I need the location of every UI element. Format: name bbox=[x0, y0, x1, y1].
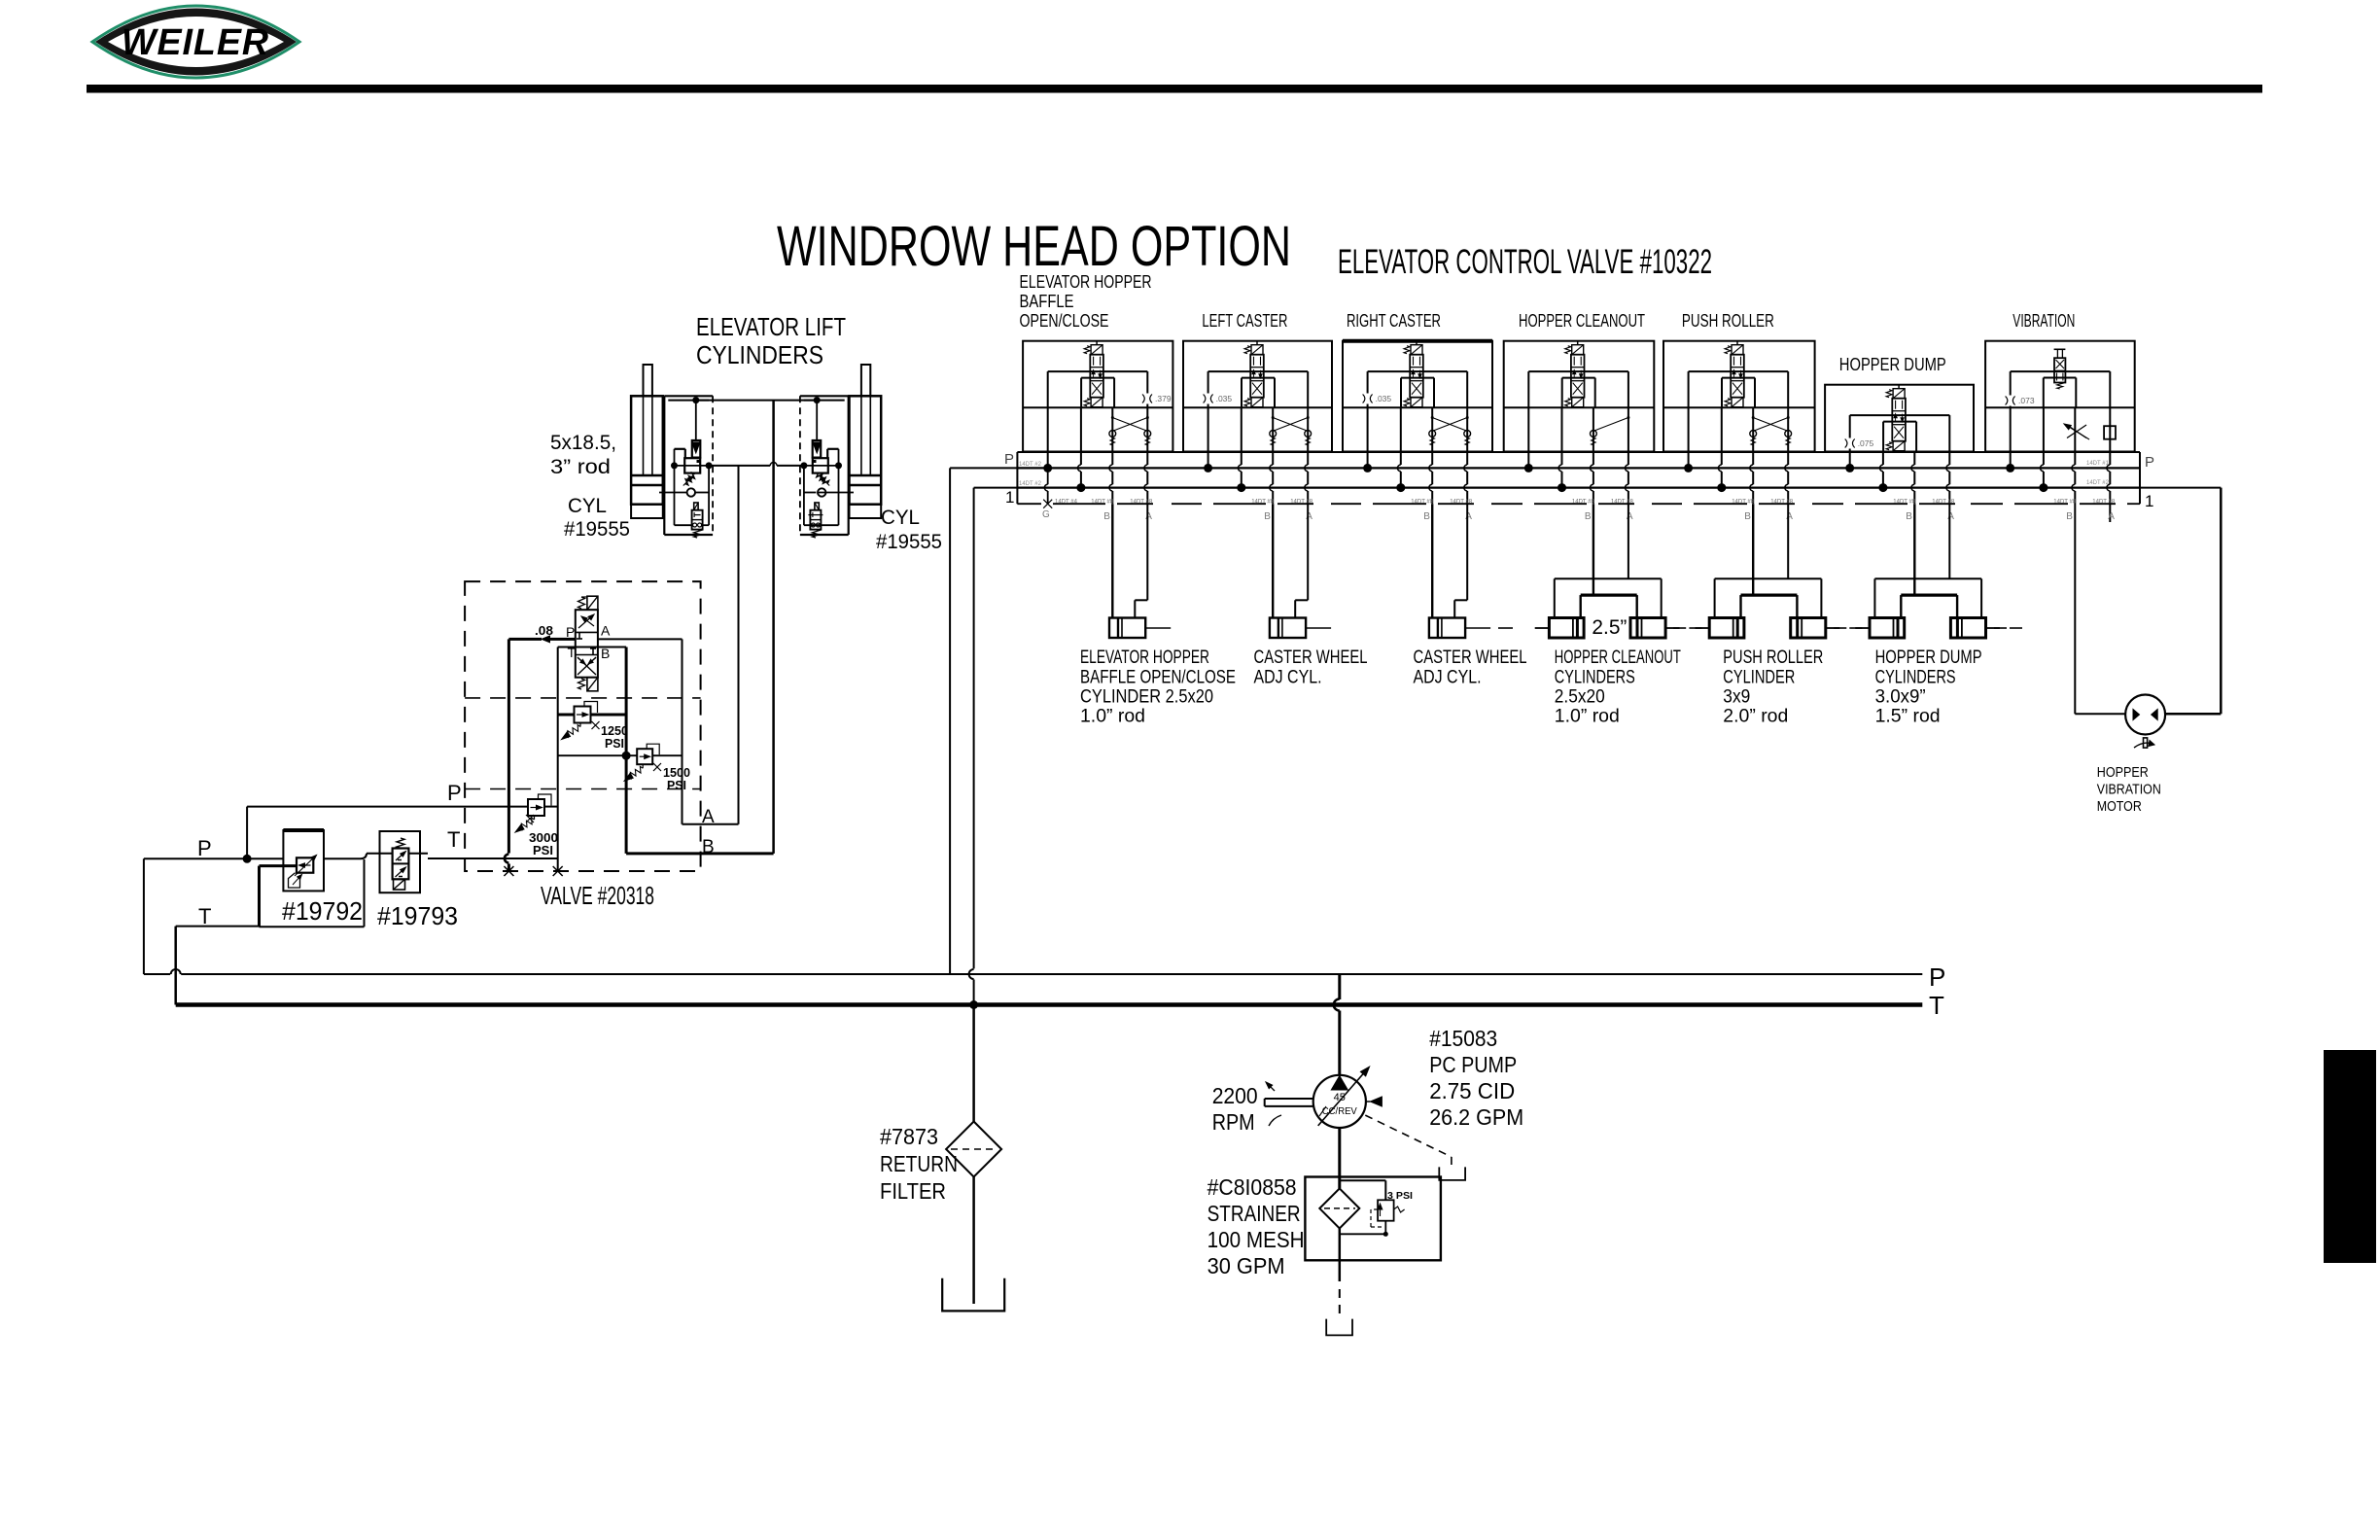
port check valves bbox=[1591, 431, 1597, 437]
inner bridge bbox=[1581, 593, 1637, 596]
cartridge with arrow bbox=[692, 440, 701, 458]
svg-text:.075: .075 bbox=[1858, 438, 1874, 448]
wire P into valve 20318 bbox=[247, 806, 528, 808]
svg-text:B: B bbox=[1423, 511, 1430, 522]
pump shaft bbox=[1265, 1098, 1313, 1100]
wire cap-end tie line with hop bbox=[709, 465, 770, 467]
svg-text:PUSH ROLLER: PUSH ROLLER bbox=[1682, 310, 1774, 331]
spring under relief bbox=[685, 472, 695, 485]
inner bridge bbox=[1741, 593, 1798, 596]
svg-text:ADJ CYL.: ADJ CYL. bbox=[1414, 667, 1482, 688]
strainer box #C8I0858 bbox=[1305, 1177, 1441, 1261]
svg-text:#7873: #7873 bbox=[880, 1124, 938, 1149]
svg-text:3x9: 3x9 bbox=[1723, 686, 1750, 708]
valve section box HOPPER DUMP bbox=[1825, 385, 1974, 452]
svg-text:WEILER: WEILER bbox=[122, 22, 269, 63]
svg-text:HOPPER: HOPPER bbox=[2097, 765, 2149, 781]
valve block VALVE #20318 dashed enclosure bbox=[465, 581, 700, 871]
pilot elbow bbox=[675, 448, 685, 450]
svg-text:14DT #8: 14DT #8 bbox=[1091, 500, 1114, 506]
section divider bbox=[1343, 406, 1492, 408]
wire P from relief to gallery bbox=[544, 806, 558, 808]
check line to barrel bbox=[818, 492, 854, 494]
strainer element bbox=[1319, 1188, 1359, 1228]
svg-text:B: B bbox=[2066, 511, 2073, 522]
manifold section divider dashed bbox=[465, 697, 700, 699]
cross line A-B bbox=[558, 754, 638, 756]
block top port line bbox=[804, 400, 845, 402]
svg-text:14DT #1: 14DT #1 bbox=[2086, 461, 2110, 467]
svg-text:CYLINDERS: CYLINDERS bbox=[696, 340, 823, 369]
svg-text:14DT #8: 14DT #8 bbox=[1572, 500, 1595, 506]
svg-text:VIBRATION: VIBRATION bbox=[2097, 783, 2161, 798]
narrow box bbox=[1882, 422, 1884, 452]
rod right bbox=[1986, 627, 2000, 629]
pump case drain dashed bbox=[1365, 1115, 1452, 1157]
wire thick riser into #19792 bbox=[258, 866, 261, 927]
B port drop bbox=[1752, 407, 1754, 465]
svg-text:#15083: #15083 bbox=[1429, 1026, 1497, 1051]
cylinder barrel CYL #19555 bbox=[631, 396, 663, 504]
wire T extension to motor bbox=[2140, 487, 2221, 489]
svg-text:P: P bbox=[566, 624, 575, 640]
check valve bbox=[687, 488, 695, 496]
pilot elbow bbox=[827, 448, 838, 450]
piston bbox=[850, 474, 882, 477]
valve section box VIBRATION bbox=[1985, 341, 2135, 452]
wire strainer to tank dashed bbox=[1339, 1228, 1342, 1281]
T return bus (bottom) bbox=[176, 1002, 1923, 1007]
piston rod bbox=[1145, 627, 1171, 629]
svg-text:1.0” rod: 1.0” rod bbox=[1555, 706, 1620, 727]
piston bbox=[631, 474, 663, 477]
T feed drop bbox=[1561, 407, 1563, 465]
wire motor supply bbox=[2075, 713, 2125, 715]
tank case drain bbox=[1439, 1167, 1465, 1180]
counterbalance valve block bbox=[799, 396, 801, 535]
motor shaft bbox=[2144, 738, 2148, 748]
cylinder left bbox=[1709, 618, 1744, 639]
A port drop bbox=[1787, 407, 1789, 465]
cap-end tie with junction dots bbox=[671, 462, 678, 469]
svg-text:B: B bbox=[1264, 511, 1271, 522]
inner rect bbox=[1368, 370, 1468, 372]
barrel bottom cap bbox=[850, 505, 882, 518]
svg-text:CYLINDER: CYLINDER bbox=[1723, 667, 1795, 688]
cylinder rod bbox=[644, 365, 652, 396]
inner rect bbox=[2011, 370, 2111, 372]
spool valve body bbox=[1725, 345, 1744, 407]
bypass relief 3 PSI bbox=[1378, 1200, 1394, 1220]
rod left bbox=[1535, 627, 1550, 629]
cylinder rod bbox=[861, 365, 870, 396]
valve section box LEFT CASTER bbox=[1183, 341, 1332, 452]
load line into cartridge bbox=[695, 401, 697, 440]
pump variable arrow bbox=[1318, 1074, 1363, 1126]
svg-text:14DT #8: 14DT #8 bbox=[2092, 500, 2116, 506]
wire A from spool bbox=[598, 638, 682, 640]
T feed drop bbox=[1080, 407, 1082, 465]
svg-text:.08: .08 bbox=[535, 624, 553, 638]
wire P line to #19792 bbox=[144, 857, 284, 859]
svg-text:.379: .379 bbox=[1155, 394, 1172, 403]
check valve bbox=[818, 488, 825, 496]
svg-text:PSI: PSI bbox=[667, 779, 686, 792]
svg-text:HOPPER DUMP: HOPPER DUMP bbox=[1839, 354, 1946, 374]
wire T riser left bbox=[174, 927, 177, 1005]
svg-text:14DT #8: 14DT #8 bbox=[1130, 500, 1153, 506]
outer bridge bbox=[1715, 577, 1822, 579]
relief valve 1250 PSI bbox=[558, 714, 575, 717]
inner rect bbox=[1528, 370, 1628, 372]
cylinder left bbox=[1549, 618, 1584, 639]
thick P feed with orifice .08 bbox=[508, 638, 542, 641]
wire P feed from left riser bbox=[950, 467, 1017, 469]
feed A to outer bridge bbox=[1787, 504, 1789, 578]
svg-text:P: P bbox=[1929, 962, 1945, 992]
needle valve bbox=[2067, 425, 2086, 438]
svg-text:B: B bbox=[601, 646, 610, 661]
svg-text:OPEN/CLOSE: OPEN/CLOSE bbox=[1020, 310, 1109, 331]
spool valve body bbox=[1084, 345, 1103, 407]
orifice bbox=[1847, 438, 1853, 449]
narrow box bbox=[1400, 378, 1402, 408]
wire B gallery bbox=[625, 647, 628, 854]
A port drop bbox=[1307, 407, 1309, 465]
svg-text:T: T bbox=[447, 827, 460, 852]
counterbalance valve block bbox=[663, 396, 665, 535]
svg-text:A: A bbox=[601, 623, 611, 639]
node junction P to valve20318 riser bbox=[243, 855, 252, 863]
svg-text:PC PUMP: PC PUMP bbox=[1429, 1052, 1517, 1077]
cylinder feed B bbox=[1431, 504, 1433, 617]
relief valve 3000 PSI bbox=[528, 799, 544, 816]
vibration spool 2pos bbox=[2054, 349, 2066, 389]
cartridge with arrow bbox=[813, 440, 822, 458]
svg-text:T: T bbox=[198, 904, 211, 928]
hydraulic motor hopper vibration bbox=[2125, 695, 2165, 735]
section divider bbox=[1663, 406, 1815, 408]
P rail in bus bbox=[1017, 467, 2140, 469]
relief main square bbox=[813, 458, 828, 472]
feed A to outer bridge bbox=[1627, 504, 1629, 578]
elevator control valve bus block bbox=[1017, 452, 2140, 504]
svg-text:B: B bbox=[1585, 511, 1592, 522]
svg-text:14DT #8: 14DT #8 bbox=[1932, 500, 1955, 506]
svg-text:ELEVATOR CONTROL VALVE #103: ELEVATOR CONTROL VALVE #10322 bbox=[1338, 243, 1712, 281]
svg-text:2.5x20: 2.5x20 bbox=[1555, 686, 1605, 708]
cylinder right bbox=[1950, 618, 1985, 639]
feed B to inner bridge bbox=[1913, 504, 1915, 595]
svg-text:3000: 3000 bbox=[529, 831, 558, 845]
B port drop bbox=[1111, 407, 1113, 465]
svg-text:ELEVATOR LIFT: ELEVATOR LIFT bbox=[696, 312, 846, 341]
svg-text:RETURN: RETURN bbox=[880, 1151, 958, 1176]
svg-text:ELEVATOR HOPPER: ELEVATOR HOPPER bbox=[1020, 271, 1152, 292]
pilot valve lower bbox=[694, 503, 698, 510]
svg-text:14DT #8: 14DT #8 bbox=[1251, 500, 1275, 506]
svg-text:14DT #8: 14DT #8 bbox=[1411, 500, 1434, 506]
cylinder right bbox=[1791, 618, 1826, 639]
section divider bbox=[1985, 406, 2135, 408]
svg-text:CYL: CYL bbox=[881, 507, 920, 529]
port check valves bbox=[1270, 431, 1277, 437]
svg-text:14DT #8: 14DT #8 bbox=[1770, 500, 1794, 506]
cylinder feed A with jog bbox=[1146, 504, 1148, 600]
svg-text:WINDROW HEAD OPTION: WINDROW HEAD OPTION bbox=[777, 215, 1291, 278]
wire T line left segment bbox=[176, 926, 260, 927]
svg-text:ADJ CYL.: ADJ CYL. bbox=[1254, 667, 1322, 688]
section divider bbox=[1183, 406, 1332, 408]
cylinder bbox=[1109, 618, 1145, 639]
svg-text:#19555: #19555 bbox=[876, 531, 942, 553]
manifold section divider dashed 2 bbox=[465, 788, 700, 790]
svg-text:LEFT CASTER: LEFT CASTER bbox=[1202, 310, 1287, 331]
piston rod bbox=[1306, 627, 1331, 629]
T feed drop bbox=[1241, 407, 1242, 465]
rod right bbox=[1826, 627, 1839, 629]
wire A long drop to valve bbox=[738, 466, 740, 824]
valve section box RIGHT CASTER bbox=[1343, 341, 1492, 452]
outer bridge bbox=[1874, 577, 1981, 579]
wire P riser left bbox=[143, 858, 145, 974]
svg-text:CYLINDERS: CYLINDERS bbox=[1875, 667, 1956, 688]
check line to barrel bbox=[659, 492, 687, 494]
svg-text:B: B bbox=[702, 837, 715, 857]
svg-text:RIGHT CASTER: RIGHT CASTER bbox=[1347, 310, 1441, 331]
A stub bbox=[2109, 407, 2111, 465]
cylinder left bbox=[1870, 618, 1905, 639]
svg-text:2.75 CID: 2.75 CID bbox=[1429, 1078, 1515, 1103]
cylinder barrel CYL #19555 bbox=[850, 396, 882, 504]
svg-text:B: B bbox=[1103, 511, 1110, 522]
P feed drop bbox=[1047, 407, 1049, 468]
P feed drop bbox=[1207, 407, 1209, 468]
valve section box PUSH ROLLER bbox=[1663, 341, 1815, 452]
T feed drop bbox=[1882, 452, 1884, 466]
cylinder bbox=[1429, 618, 1465, 639]
cylinder feed A with jog bbox=[1307, 504, 1309, 600]
svg-text:5x18.5,: 5x18.5, bbox=[550, 432, 616, 454]
rod right bbox=[1665, 627, 1679, 629]
pressure reducing valve #19792 bbox=[283, 830, 324, 891]
spool valve body bbox=[1404, 345, 1423, 407]
svg-text:14DT #8: 14DT #8 bbox=[2053, 500, 2077, 506]
strainer bypass tee bbox=[1340, 1179, 1386, 1181]
tank symbol strainer bbox=[1326, 1319, 1352, 1336]
svg-text:P: P bbox=[1004, 451, 1014, 468]
cylinder feed A with jog bbox=[1466, 504, 1468, 600]
valve section box ELEVATOR HOPPER BAFFLE bbox=[1023, 341, 1172, 452]
block internal gallery bbox=[838, 449, 840, 525]
spool valve body bbox=[1244, 345, 1264, 407]
P feed drop bbox=[1849, 452, 1851, 469]
orifice bbox=[1206, 394, 1211, 404]
svg-text:B: B bbox=[1744, 511, 1751, 522]
piston rod bbox=[1465, 627, 1490, 629]
barrel bottom cap bbox=[631, 505, 663, 518]
svg-text:CASTER WHEEL: CASTER WHEEL bbox=[1254, 647, 1368, 668]
section divider bbox=[1023, 406, 1172, 408]
svg-text:1500: 1500 bbox=[663, 766, 690, 780]
svg-text:B: B bbox=[1906, 511, 1912, 522]
feed B to inner bridge bbox=[1752, 504, 1754, 595]
svg-text:BAFFLE: BAFFLE bbox=[1020, 291, 1074, 311]
svg-text:1: 1 bbox=[2145, 492, 2153, 510]
A port drop bbox=[1948, 452, 1950, 466]
spool valve body bbox=[1565, 345, 1585, 407]
inner rect bbox=[1208, 370, 1309, 372]
svg-text:A: A bbox=[702, 807, 715, 827]
wire drain drop from jog bbox=[364, 859, 366, 927]
bypass return bbox=[1384, 1221, 1386, 1235]
svg-text:.035: .035 bbox=[1376, 394, 1392, 403]
feed B to inner bridge bbox=[1592, 504, 1594, 595]
wire pump inlet bbox=[1338, 1128, 1341, 1188]
svg-text:1.0” rod: 1.0” rod bbox=[1080, 706, 1145, 727]
svg-text:14DT #8: 14DT #8 bbox=[1732, 500, 1755, 506]
spool valve body bbox=[1886, 389, 1906, 451]
svg-text:.073: .073 bbox=[2018, 396, 2035, 405]
page tab black bar bbox=[2324, 1050, 2376, 1263]
cylinder bbox=[1270, 618, 1306, 639]
svg-text:PSI: PSI bbox=[605, 737, 624, 751]
svg-text:G: G bbox=[1042, 509, 1050, 520]
tank symbol filter bbox=[942, 1278, 1004, 1312]
svg-text:30 GPM: 30 GPM bbox=[1207, 1253, 1285, 1278]
A port drop bbox=[1627, 407, 1629, 465]
plug square bbox=[2104, 426, 2116, 439]
svg-text:T: T bbox=[1929, 991, 1944, 1020]
directional valve 4w3p in 20318 bbox=[576, 596, 598, 691]
svg-text:STRAINER: STRAINER bbox=[1207, 1201, 1301, 1226]
wire T feed from left riser bbox=[974, 487, 1018, 489]
svg-text:MOTOR: MOTOR bbox=[2097, 799, 2142, 815]
svg-text:VIBRATION: VIBRATION bbox=[2012, 310, 2075, 331]
svg-text:#19555: #19555 bbox=[564, 518, 630, 541]
node T bus to return filter bbox=[969, 1000, 978, 1009]
P feed drop bbox=[1367, 407, 1369, 468]
cylinder right bbox=[1630, 618, 1665, 639]
orifice bbox=[1144, 394, 1150, 404]
svg-text:HOPPER CLEANOUT: HOPPER CLEANOUT bbox=[1519, 310, 1645, 331]
orifice .073 bbox=[2008, 396, 2013, 406]
spring under relief bbox=[817, 474, 829, 484]
relief valve 1500 PSI bbox=[637, 749, 652, 764]
inner rect bbox=[1048, 370, 1148, 372]
P gallery vertical (plugged) bbox=[507, 639, 510, 853]
block internal gallery bbox=[674, 449, 676, 525]
svg-text:BAFFLE OPEN/CLOSE: BAFFLE OPEN/CLOSE bbox=[1080, 667, 1236, 688]
P supply bus (bottom) bbox=[144, 973, 170, 975]
T feed drop bbox=[1400, 407, 1402, 465]
svg-text:RPM: RPM bbox=[1212, 1109, 1255, 1135]
svg-text:14DT #8: 14DT #8 bbox=[1290, 500, 1313, 506]
cylinder feed B bbox=[1111, 504, 1113, 617]
inner box top bbox=[558, 647, 626, 648]
B port drop bbox=[1913, 452, 1915, 466]
svg-text:1.5” rod: 1.5” rod bbox=[1875, 706, 1941, 727]
svg-text:14DT #2: 14DT #2 bbox=[1019, 462, 1042, 468]
T feed drop bbox=[2043, 407, 2045, 465]
svg-text:14DT #2: 14DT #2 bbox=[1019, 481, 1042, 487]
T rail in bus bbox=[1017, 487, 2140, 489]
wire B long drop to valve bbox=[772, 401, 775, 854]
block top port line bbox=[668, 400, 709, 402]
A port drop bbox=[1466, 407, 1468, 465]
port check valves bbox=[1429, 431, 1436, 437]
narrow box bbox=[1080, 378, 1082, 408]
pump #15083 PC pump bbox=[1313, 1075, 1366, 1128]
G drain continuation section1 bbox=[1047, 468, 1049, 484]
narrow box bbox=[1241, 378, 1242, 408]
svg-text:CYL: CYL bbox=[568, 495, 607, 517]
wire pump outlet to P bus bbox=[1338, 974, 1341, 999]
inner bridge bbox=[1901, 593, 1957, 596]
svg-text:3.0x9”: 3.0x9” bbox=[1875, 686, 1926, 708]
orifice bbox=[1365, 394, 1371, 404]
relief main square bbox=[684, 458, 700, 472]
svg-text:100 MESH: 100 MESH bbox=[1207, 1227, 1305, 1252]
B port drop bbox=[1592, 407, 1594, 465]
svg-text:#19792: #19792 bbox=[282, 896, 363, 926]
svg-text:P: P bbox=[447, 781, 462, 805]
wire P line through #19792 to jog bbox=[324, 857, 361, 859]
svg-text:1250: 1250 bbox=[601, 724, 628, 738]
svg-text:3 PSI: 3 PSI bbox=[1387, 1191, 1413, 1202]
wire rod-end tie line bbox=[696, 400, 817, 402]
svg-text:14DT #8: 14DT #8 bbox=[1893, 500, 1916, 506]
P feed drop bbox=[1527, 407, 1529, 468]
wire return filter drop bbox=[972, 1005, 975, 1122]
bus bottom edge dashed bbox=[1017, 503, 1041, 505]
svg-text:ELEVATOR HOPPER: ELEVATOR HOPPER bbox=[1080, 647, 1209, 668]
B drop to motor bbox=[2074, 407, 2076, 465]
load line into cartridge bbox=[816, 401, 818, 440]
svg-text:.035: .035 bbox=[1216, 394, 1233, 403]
narrow box bbox=[1561, 378, 1563, 408]
svg-text:PUSH ROLLER: PUSH ROLLER bbox=[1723, 647, 1823, 668]
svg-text:FILTER: FILTER bbox=[880, 1178, 946, 1204]
port check valves bbox=[1750, 431, 1757, 437]
svg-text:14DT #8: 14DT #8 bbox=[1611, 500, 1634, 506]
svg-text:CYLINDERS: CYLINDERS bbox=[1555, 667, 1635, 688]
section divider bbox=[1504, 406, 1655, 408]
svg-text:#19793: #19793 bbox=[377, 901, 458, 930]
header rule bar bbox=[87, 85, 2262, 93]
svg-text:1: 1 bbox=[1005, 488, 1014, 507]
pump LS arrow bbox=[1370, 1097, 1382, 1106]
wire reduced-pressure line to #19793 and valve T bbox=[367, 853, 393, 855]
svg-text:P: P bbox=[197, 836, 212, 860]
B port drop bbox=[1272, 407, 1274, 465]
Weiler logo bbox=[92, 6, 299, 78]
svg-text:2.0” rod: 2.0” rod bbox=[1723, 706, 1788, 727]
cap-end tie with junction dots bbox=[835, 462, 842, 469]
svg-text:CYLINDER 2.5x20: CYLINDER 2.5x20 bbox=[1080, 686, 1213, 708]
inner rect bbox=[1850, 414, 1950, 416]
B port drop bbox=[1431, 407, 1433, 465]
svg-text:VALVE #20318: VALVE #20318 bbox=[541, 881, 654, 910]
svg-text:HOPPER DUMP: HOPPER DUMP bbox=[1875, 647, 1982, 668]
P feed drop bbox=[1688, 407, 1690, 468]
T feed drop bbox=[1721, 407, 1723, 465]
pilot valve lower bbox=[815, 503, 819, 510]
svg-text:26.2 GPM: 26.2 GPM bbox=[1429, 1104, 1523, 1130]
svg-text:T: T bbox=[568, 645, 577, 660]
svg-text:2.5”: 2.5” bbox=[1592, 616, 1627, 639]
svg-text:HOPPER CLEANOUT: HOPPER CLEANOUT bbox=[1555, 647, 1681, 668]
